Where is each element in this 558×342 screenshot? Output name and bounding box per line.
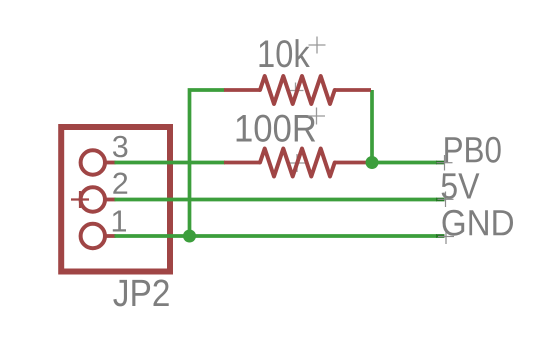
pin 2 circle [81, 187, 105, 211]
junction dot PB0 node [366, 156, 379, 169]
resistor R2 100R [224, 149, 370, 177]
wire GND horizontal from pin 1 [115, 234, 438, 238]
wire GND dark end tip [436, 234, 445, 238]
junction dot GND node [183, 230, 196, 243]
net label 5V [442, 173, 480, 199]
net label GND origin cross [438, 229, 454, 245]
wire PB0 horizontal [372, 161, 437, 165]
resistor R1 10k [224, 76, 371, 104]
net label PB0 [445, 137, 501, 163]
resistor R2 origin cross [288, 154, 306, 172]
pin number 1 [113, 211, 126, 232]
pin number 2 [113, 173, 127, 194]
wire pin3 to 100R [115, 161, 226, 165]
pin number 3 [113, 136, 127, 158]
pin 3 circle [81, 150, 105, 174]
10k text origin cross [309, 37, 326, 54]
label JP2 [113, 280, 168, 307]
wire 5V horizontal from pin 2 [115, 198, 438, 202]
value label 100R [237, 115, 316, 142]
wire left vertical GND to 10k [190, 90, 225, 238]
value label 10k [260, 39, 310, 67]
resistor R1 origin cross [287, 83, 304, 99]
net label GND [443, 210, 514, 236]
connector JP2 body [61, 127, 170, 272]
connector JP2 origin cross [71, 191, 89, 208]
net label 5V origin cross [438, 192, 454, 208]
net label PB0 origin cross [437, 155, 453, 171]
pin 3 stub [106, 161, 116, 165]
pin 1 circle [81, 224, 105, 248]
pin 1 stub [106, 234, 116, 238]
100R text origin cross [308, 108, 325, 125]
pin 2 stub [106, 198, 116, 202]
wire PB0 dark end tip [436, 161, 445, 165]
wire 5V dark end tip [436, 198, 445, 202]
wire right vertical 10k to PB0 node [370, 90, 374, 163]
